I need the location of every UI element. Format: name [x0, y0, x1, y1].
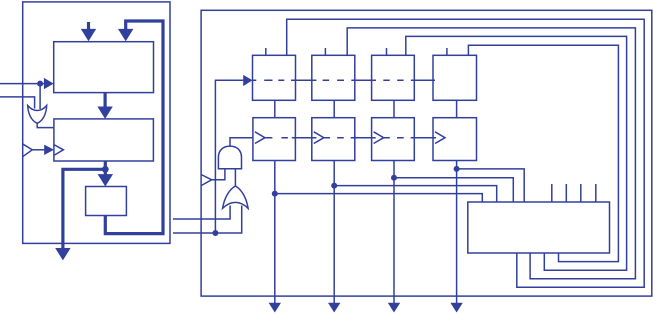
clock chevron R8	[435, 132, 445, 144]
clock input triangle left module	[23, 144, 33, 157]
thick wire node B to output arrow	[63, 169, 105, 249]
node Q3 junction dot	[391, 175, 397, 181]
arrowhead into U3	[98, 174, 113, 186]
tick pin R3	[386, 48, 388, 55]
wire R3 to R7	[393, 100, 395, 117]
or-gate G1 (pointing down)	[28, 106, 47, 124]
feedback wire F2 into R2	[347, 28, 635, 279]
or-gate G3 (pointing up)	[223, 186, 249, 208]
output wire Q4 from R8	[456, 161, 458, 304]
wire clock R3 to R4	[411, 79, 435, 81]
register R8 bottom row	[433, 118, 477, 161]
register R7 bottom row	[372, 118, 415, 161]
thick wire U2 output	[104, 161, 107, 169]
wire R4 to R8	[456, 100, 458, 117]
wire clock to U2	[32, 149, 44, 151]
node A junction dot	[37, 81, 43, 87]
block U3 (left module small block)	[86, 187, 127, 216]
register R2 top row	[312, 55, 355, 100]
arrowhead output Q2	[328, 303, 340, 313]
wire clock R1 to R2	[291, 79, 316, 81]
dashed clock line inside R7	[384, 137, 404, 139]
arrowhead clock into R1	[243, 75, 252, 86]
output wire Q2 from R6	[333, 161, 335, 304]
wire node A down to OR gate G1	[39, 84, 41, 109]
arrowhead left module output	[55, 248, 70, 260]
feedback wire F3 into R3	[406, 36, 627, 270]
arrowhead feedback into U1	[118, 29, 133, 41]
register R4 top row	[433, 55, 477, 100]
wire R2 to R6	[333, 100, 335, 117]
wire Q4 tap to logic block	[457, 169, 525, 202]
wire input B into left module	[0, 97, 35, 109]
thick wire U1 to U2	[103, 93, 106, 107]
wire Q3 tap to logic block	[394, 178, 513, 202]
tick pin U4 a	[551, 184, 553, 202]
tick pin R2	[324, 48, 326, 55]
clock enable vertical wire right module	[215, 80, 244, 233]
wire clock to G2 input	[212, 169, 225, 180]
arrowhead input A into U1	[44, 78, 54, 89]
clock chevron U2	[54, 145, 64, 156]
wire clock R5 to R6	[292, 137, 317, 139]
clock chevron R5	[255, 132, 265, 144]
feedback wire F4 into R4	[468, 45, 618, 261]
node B junction dot	[102, 166, 109, 173]
output wire Q1 from R5	[274, 161, 276, 304]
tick pin U4 b	[565, 184, 567, 202]
register R1 top row	[253, 55, 296, 100]
wire left module port P2 to OR gate G3	[173, 206, 242, 234]
node C junction dot	[212, 230, 218, 236]
register R5 bottom row	[253, 118, 296, 161]
arrowhead output Q1	[269, 303, 281, 313]
wire R1 to R5	[274, 100, 276, 117]
arrowhead dangling input	[81, 29, 96, 41]
output wire Q3 from R7	[393, 161, 395, 304]
thick feedback wire U3 to U1	[105, 21, 163, 234]
and-gate G2 (pointing up)	[218, 146, 241, 169]
feedback wire F1 into R1	[287, 19, 645, 287]
dashed clock line inside R5	[265, 137, 288, 139]
wire clock R7 to R8	[411, 137, 436, 139]
node Q2 junction dot	[331, 183, 337, 189]
wire left module port P1 to OR gate G3	[173, 206, 230, 220]
clock chevron R7	[374, 132, 384, 144]
arrowhead U1 to U2	[97, 107, 112, 119]
feedback logic block U4	[468, 202, 610, 253]
tick pin U4 d	[595, 184, 597, 202]
dashed clock line inside R1	[253, 79, 285, 81]
thick wire node B into U3	[104, 169, 107, 175]
block U1 (left module upper block)	[54, 42, 154, 93]
wire G2 output to R5 clock	[230, 138, 253, 146]
register R3 top row	[372, 55, 415, 100]
left module boundary	[23, 2, 170, 244]
wire Q1 tap to logic block	[275, 194, 483, 202]
register R6 bottom row	[312, 118, 355, 161]
right module boundary	[201, 10, 652, 296]
dashed clock line inside R6	[324, 137, 344, 139]
node Q4 junction dot	[454, 166, 460, 172]
wire input A into left module	[0, 83, 45, 85]
wire G1 output to U2	[37, 123, 54, 127]
clock chevron R6	[314, 132, 324, 144]
dashed clock line inside R3	[383, 79, 403, 81]
arrowhead output Q3	[388, 303, 400, 313]
arrowhead clock into U2	[44, 145, 54, 155]
node Q1 junction dot	[272, 191, 278, 197]
dangling input arrow into U1	[87, 22, 90, 30]
tick pin U4 c	[580, 184, 582, 202]
wire clock R6 to R7	[351, 137, 376, 139]
dashed clock line inside R2	[323, 79, 344, 81]
arrowhead output Q4	[450, 303, 462, 313]
clock input triangle right module	[201, 175, 212, 186]
wire clock R2 to R3	[351, 79, 376, 81]
tick pin R4	[446, 48, 448, 55]
block U2 (left module middle block)	[54, 119, 153, 161]
wire Q2 tap to logic block	[334, 186, 497, 202]
tick pin R1	[265, 48, 267, 55]
wire G3 output to G2 input	[234, 169, 236, 186]
